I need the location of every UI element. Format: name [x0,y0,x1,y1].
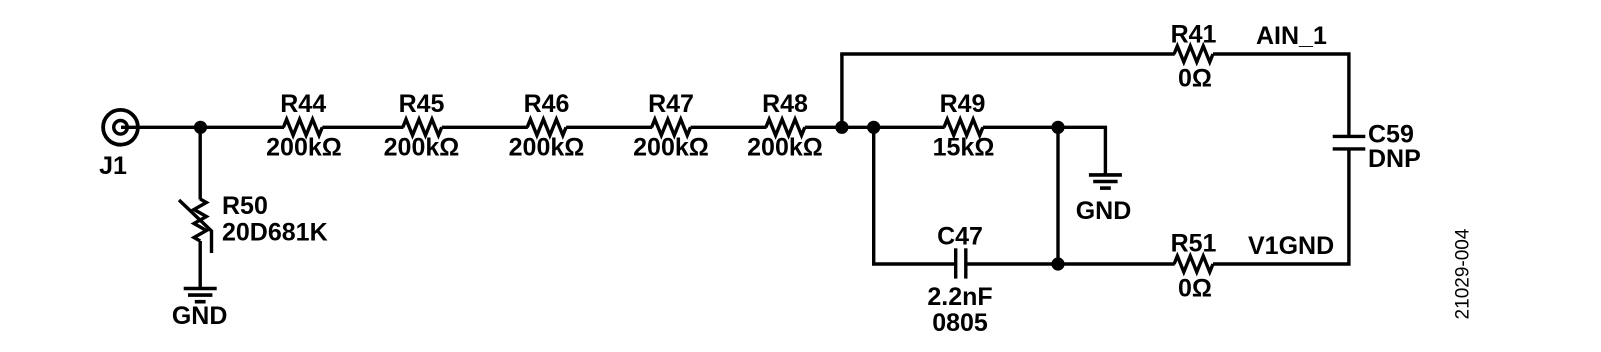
connector J1 [103,110,138,145]
resistor R46 zigzag [527,119,566,135]
varistor R50 zigzag [194,199,206,241]
svg-text:GND: GND [1076,197,1132,225]
svg-text:R49: R49 [940,90,986,118]
svg-text:R45: R45 [399,90,445,118]
svg-text:J1: J1 [99,152,127,180]
svg-text:0Ω: 0Ω [1178,275,1212,303]
svg-text:200kΩ: 200kΩ [747,134,823,162]
svg-text:V1GND: V1GND [1248,232,1334,260]
svg-text:R51: R51 [1171,229,1217,257]
wire J1 to R44 [121,126,284,129]
wire C59 down to bottom corner [1213,149,1349,264]
svg-text:GND: GND [172,302,228,330]
junction node bottom right [1051,257,1064,270]
wire tee up to top branch [840,54,843,127]
wire R45 to R46 [442,126,528,129]
ground symbol center (right of R49) [1089,175,1122,188]
wire top branch right segment with corner down to C59 [1213,54,1349,137]
junction node lower tee [867,121,880,134]
resistor R47 zigzag [652,119,691,135]
capacitor C59 plates [1333,136,1366,149]
svg-text:R48: R48 [762,90,808,118]
wire R47 to R48 [691,126,767,129]
svg-text:0Ω: 0Ω [1178,65,1212,93]
resistor R44 zigzag [283,119,322,135]
svg-text:R50: R50 [222,192,268,220]
svg-text:R44: R44 [280,90,326,118]
wire R44 to R45 [322,126,403,129]
resistor R41 zigzag [1174,46,1213,62]
svg-text:0805: 0805 [932,309,988,337]
resistor R48 zigzag [766,119,805,135]
svg-text:20D681K: 20D681K [222,218,328,246]
resistor R45 zigzag [403,119,442,135]
wire vertical junction riser [1056,127,1059,264]
svg-text:AIN_1: AIN_1 [1256,22,1327,50]
capacitor C47 plates [956,248,966,278]
svg-text:R47: R47 [648,90,694,118]
junction node at J1 branch [194,121,207,134]
wire varistor branch down [198,127,201,199]
junction node top tee [835,121,848,134]
junction node mid right [1051,121,1064,134]
wire varistor to ground [198,241,201,287]
varistor R50 diagonal strike with tail [179,200,212,253]
ground symbol left (below R50) [184,289,217,302]
svg-text:C47: C47 [937,222,983,250]
wire R49 to ground stub corner [983,127,1106,173]
wire C47 right to junction [968,262,1059,265]
wire C47 left to lower tee [874,127,954,264]
svg-text:R46: R46 [524,90,570,118]
wire R51 to bottom junction [1058,262,1175,265]
svg-text:15kΩ: 15kΩ [933,134,995,162]
svg-text:DNP: DNP [1368,145,1421,173]
svg-text:2.2nF: 2.2nF [927,283,992,311]
wire R46 to R47 [566,126,652,129]
wire top branch left segment [840,52,1174,55]
svg-text:200kΩ: 200kΩ [384,134,460,162]
svg-text:200kΩ: 200kΩ [266,134,342,162]
svg-text:21029-004: 21029-004 [1453,228,1474,319]
svg-text:R41: R41 [1171,21,1217,49]
svg-text:200kΩ: 200kΩ [509,134,585,162]
wire R48 to R49 [805,126,945,129]
svg-text:200kΩ: 200kΩ [633,134,709,162]
resistor R51 zigzag [1174,256,1213,272]
resistor R49 zigzag [944,119,983,135]
